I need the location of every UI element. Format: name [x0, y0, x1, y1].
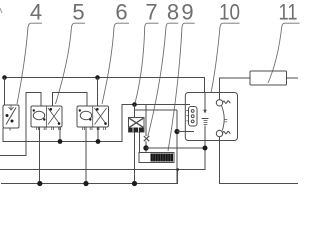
leader line to 4 — [17, 23, 42, 104]
node: dot 98,141.5 — [96, 139, 101, 144]
component valve 5 — [31, 106, 62, 130]
wire: top bus to box10 — [5, 78, 205, 93]
node: dot 146,148 — [143, 145, 148, 150]
component X valve 8 — [144, 136, 149, 141]
node: dot 60,141.5 — [58, 139, 63, 144]
wire: comp7 second drop to comp9 — [139, 132, 141, 153]
switch top circle — [216, 100, 222, 106]
wire: upper bottom bus to box10 bottom — [0, 141, 205, 170]
svg-text:4: 4 — [30, 0, 42, 25]
node: dot comp7 top — [132, 102, 137, 107]
leader line to 8 — [148, 23, 179, 136]
leader line to 5 — [56, 23, 86, 104]
leader line to 11 — [268, 23, 300, 83]
svg-text:7: 7 — [145, 0, 157, 25]
wire: box11 right out — [287, 77, 299, 79]
component heater 9 — [139, 153, 174, 163]
wire: y148 line to x205 — [146, 147, 205, 149]
leader line to 6 — [102, 23, 129, 104]
leader line to 10 — [211, 23, 240, 93]
svg-text:5: 5 — [72, 0, 84, 25]
svg-text:6: 6 — [115, 0, 127, 25]
component valve 6 — [77, 106, 109, 130]
wire: valve6 right drop to y141.5 — [97, 127, 99, 142]
wire: comp7 drop to lower bus — [134, 132, 136, 184]
svg-text:9: 9 — [181, 0, 193, 25]
plunger under bus entry — [204, 93, 206, 112]
leader line to 7 — [135, 23, 159, 104]
component box 11 — [250, 71, 287, 85]
node: dot 134.5,183.5 — [132, 181, 137, 186]
svg-text:8: 8 — [167, 0, 179, 25]
component valve 4 — [3, 105, 19, 131]
wire: bus drop to valve 4 — [4, 78, 6, 106]
component valve 7 — [129, 118, 145, 133]
wire: lower bottom bus with corner up — [1, 170, 178, 184]
node: junction dot bus x97 — [95, 75, 100, 80]
wire: branch x146 down to X valve — [145, 105, 147, 137]
component box 10 — [185, 93, 237, 141]
node: dot 177,131.5 — [174, 129, 179, 134]
wire: X valve to dot — [145, 141, 147, 146]
leader line to 9 — [168, 23, 195, 151]
connector inside box10 — [189, 107, 198, 127]
wire: return line y141.5 from valve4 to corner x122 up to comp7 line — [3, 105, 135, 142]
node: junction dot left bus — [2, 75, 7, 80]
wire: parallel line y110 to x177 — [135, 109, 178, 111]
wire: comp7 node down into comp7 — [134, 105, 136, 118]
wire: valve5 right drop to y141.5 — [59, 127, 61, 142]
wire: bus drop to valve 6 — [97, 78, 99, 107]
wire: valve5 left drop to lower bus — [39, 127, 41, 184]
wire: comp7 node line right into box10 — [135, 104, 191, 106]
wire: valve6 left drop to lower bus — [85, 127, 87, 184]
wire: tick below dot146 — [145, 151, 147, 153]
node: dot 40,183.5 — [37, 181, 42, 186]
wire: from dot into box10 lower left — [177, 131, 194, 133]
svg-text:10: 10 — [219, 0, 240, 25]
wire: bridge2 comp5-comp6 pilot — [53, 93, 88, 107]
wire: box10 circle up and over to box 11 — [220, 78, 251, 100]
svg-text:11: 11 — [279, 0, 298, 25]
wire: vertical x177 down to lower bus corner — [176, 110, 178, 184]
switch lever — [222, 106, 225, 131]
switch bottom circle — [216, 130, 222, 136]
edge mark top-left — [0, 8, 2, 13]
wire: bridge1 comp4-comp5 pilot — [0, 93, 41, 156]
wire: box10 bottom down and right to edge — [220, 141, 299, 184]
node: dot 86,183.5 — [83, 181, 88, 186]
node: junction dot at 177.5,169.5 — [176, 168, 179, 171]
node: dot 205,148 — [203, 146, 208, 151]
